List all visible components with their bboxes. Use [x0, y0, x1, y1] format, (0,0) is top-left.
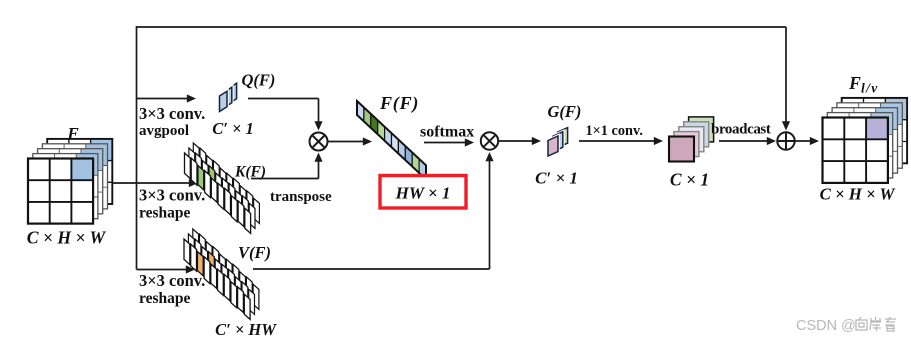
svg-text:V(F): V(F): [238, 243, 271, 262]
svg-text:F(F): F(F): [379, 93, 419, 114]
svg-text:G(F): G(F): [548, 102, 582, 121]
svg-text:softmax: softmax: [420, 124, 474, 141]
svg-text:reshape: reshape: [139, 205, 191, 222]
svg-text:1×1 conv.: 1×1 conv.: [586, 123, 643, 139]
svg-text:l/v: l/v: [861, 81, 879, 96]
svg-text:broadcast: broadcast: [711, 122, 771, 138]
svg-text:K(F): K(F): [234, 164, 266, 181]
svg-text:avgpool: avgpool: [139, 123, 189, 139]
svg-text:transpose: transpose: [270, 189, 332, 205]
svg-text:C′ × HW: C′ × HW: [215, 320, 277, 339]
svg-text:reshape: reshape: [139, 290, 191, 307]
svg-text:C × 1: C × 1: [670, 170, 709, 190]
svg-text:HW × 1: HW × 1: [395, 184, 451, 203]
svg-text:3×3 conv.: 3×3 conv.: [139, 104, 205, 123]
svg-text:C × H × W: C × H × W: [27, 228, 107, 248]
svg-text:CSDN @: CSDN @: [796, 318, 856, 334]
svg-text:F: F: [848, 73, 861, 93]
svg-text:3×3 conv.: 3×3 conv.: [139, 271, 205, 290]
svg-text:F: F: [66, 124, 79, 143]
svg-text:3×3 conv.: 3×3 conv.: [139, 186, 205, 205]
svg-text:C × H × W: C × H × W: [820, 185, 896, 204]
svg-text:Q(F): Q(F): [242, 71, 276, 90]
svg-text:C′ × 1: C′ × 1: [212, 119, 254, 138]
svg-text:C′ × 1: C′ × 1: [535, 169, 578, 188]
